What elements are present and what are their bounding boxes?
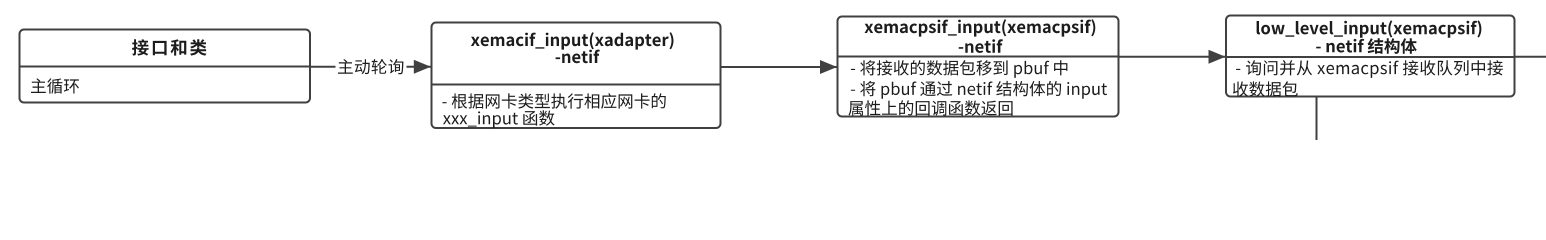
divider line box1 — [20, 66, 311, 68]
box low_level_input — [1226, 16, 1515, 97]
wire box2 to box3 — [721, 66, 838, 68]
title -netif (box3) — [959, 39, 1003, 53]
label 主动轮询 — [338, 59, 403, 74]
body line 收数据包 — [1233, 81, 1298, 96]
label 主循环 — [31, 78, 79, 93]
title - netif 结构体 — [1316, 38, 1417, 54]
divider line box2 — [432, 84, 721, 86]
body line 将 pbuf 通过 netif 结构体的 input — [851, 81, 1107, 99]
arrowhead into box3 — [820, 60, 837, 74]
divider line box4 — [1226, 56, 1515, 58]
arrowhead into box2 — [414, 60, 431, 74]
title low_level_input(xemacpsif) — [1257, 20, 1482, 37]
title xemacpsif_input(xemacpsif) — [865, 19, 1096, 36]
body line 根据网卡类型执行相应网卡的 — [442, 93, 665, 109]
box xemacif_input — [432, 23, 721, 129]
wire box1 to box2 — [310, 66, 431, 68]
title 接口和类 — [132, 39, 207, 55]
wire box4 to right edge — [1515, 56, 1546, 58]
wire down from box4 bottom — [1316, 97, 1318, 141]
title -netif (box2) — [556, 50, 600, 64]
body line 将接收的数据包移到 pbuf 中 — [851, 60, 1068, 78]
label background 主动轮询 — [336, 58, 407, 77]
arrowhead into box4 — [1209, 50, 1226, 64]
divider line box3 — [838, 56, 1119, 58]
title xemacif_input(xadapter) — [471, 32, 674, 49]
body line xxx_input 函数 — [443, 110, 555, 128]
box xemacpsif_input — [838, 17, 1119, 117]
body line 询问并从 xemacpsif 接收队列中接 — [1236, 60, 1503, 78]
body line 属性上的回调函数返回 — [849, 100, 1013, 115]
wire box3 to box4 — [1119, 56, 1226, 58]
box 接口和类 (interface-and-class header box) — [20, 30, 311, 103]
